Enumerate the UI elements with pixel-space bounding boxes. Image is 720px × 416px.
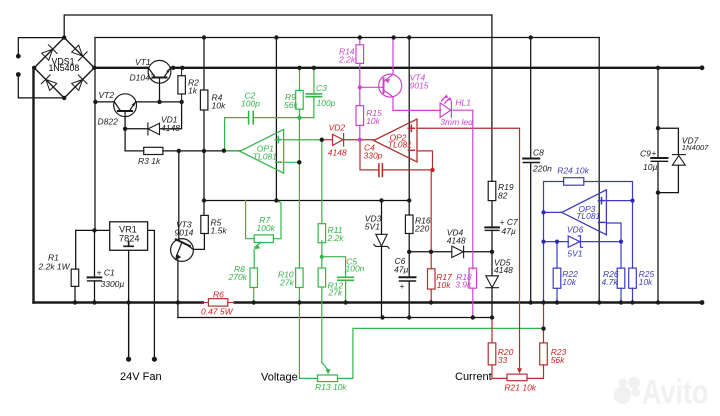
junction (34.2,67.8) <box>32 66 36 70</box>
junction (204,37.5) <box>202 35 206 39</box>
wire OP1 supply spine x=276.4 <box>275 38 277 201</box>
resistor R26 <box>620 242 622 269</box>
wire VR1 output to fan <box>148 230 155 359</box>
green junction dot R9/C2 node <box>297 116 301 120</box>
resistor R9 <box>299 68 301 118</box>
resistor R20 <box>488 343 496 365</box>
junction (409.2,37.5) <box>407 35 411 39</box>
svg-text:VT2: VT2 <box>99 90 115 100</box>
wire OP2 - input <box>417 151 433 170</box>
resistor R12 <box>318 268 326 287</box>
junction (173.2,67.8) <box>171 66 175 70</box>
junction (431,251.8) <box>429 250 433 254</box>
wire OP3 + input <box>606 200 632 202</box>
svg-text:1k: 1k <box>188 86 198 96</box>
wire VT1 base <box>159 83 161 102</box>
green junction dot R11/R12/C5 <box>320 255 324 259</box>
wire second rail y=37.5 <box>95 38 599 68</box>
wire OP1 - input <box>284 161 300 163</box>
junction (658,128.2) <box>656 126 660 130</box>
capacitor C9 <box>651 158 667 161</box>
svg-text:Current: Current <box>455 371 492 383</box>
junction (75,302.5) <box>73 300 77 304</box>
red labels <box>201 123 567 393</box>
svg-text:Avito: Avito <box>642 374 709 412</box>
svg-text:4148: 4148 <box>328 148 347 158</box>
trimmer R7 <box>246 201 255 239</box>
resistor R23 <box>540 343 548 365</box>
svg-text:+ C1: + C1 <box>97 268 115 278</box>
wire VD4 line y=251.8 <box>409 251 452 253</box>
svg-text:0.47 5W: 0.47 5W <box>201 307 234 317</box>
resistor R11 <box>321 140 323 223</box>
wire VR1 input y=230.4 <box>76 229 110 231</box>
wire VT3 base <box>178 151 180 240</box>
diode VD5 <box>486 276 499 288</box>
svg-text:100p: 100p <box>317 98 336 108</box>
wire OP1 + input <box>284 139 322 141</box>
svg-text:2.2k: 2.2k <box>338 55 356 65</box>
svg-text:10k: 10k <box>212 101 226 111</box>
junction (64.2,37.6) <box>62 35 66 39</box>
diode VD1 <box>148 123 160 135</box>
wire C2 corner to OP1 output <box>224 118 226 151</box>
svg-text:220n: 220n <box>532 164 552 174</box>
junction (599.2,302.5) <box>597 300 601 304</box>
svg-text:82: 82 <box>498 191 508 201</box>
zener VD6 <box>544 241 569 243</box>
junction (557,302.5) <box>555 300 559 304</box>
zener VD3 <box>374 234 389 248</box>
junction (204,150.9) <box>202 149 206 153</box>
transistor VT4 <box>379 74 402 97</box>
svg-text:3300µ: 3300µ <box>101 279 125 289</box>
junction (94.3,67.8) <box>92 66 96 70</box>
voltage regulator VR1 <box>110 222 148 251</box>
wire top rail y=15 <box>64 15 492 38</box>
svg-text:56k: 56k <box>551 355 565 365</box>
red junction dot C4 node <box>430 168 434 172</box>
svg-text:100n: 100n <box>346 264 365 274</box>
svg-text:100k: 100k <box>256 223 275 233</box>
svg-text:2.2k: 2.2k <box>327 233 345 243</box>
wire fan terminal left <box>128 302 130 359</box>
svg-text:47µ: 47µ <box>394 265 408 275</box>
junction (409.2,200.5) <box>407 198 411 202</box>
svg-text:R3 1k: R3 1k <box>138 156 161 166</box>
svg-text:10k: 10k <box>639 277 653 287</box>
junction (530.7,302.5) <box>529 300 533 304</box>
capacitor C3 <box>306 94 321 97</box>
junction (345.6,302.5) <box>343 300 347 304</box>
svg-text:R13 10k: R13 10k <box>315 382 347 392</box>
wire bridge+ spine x=95 down <box>94 68 96 231</box>
junction (658,192.6) <box>656 190 660 194</box>
junction (658,302.5) <box>656 300 660 304</box>
wire VD3 spine x=381.5 <box>381 201 383 235</box>
wire pot R21 right to R23 <box>527 365 544 379</box>
junction (223.9,150.7) <box>222 149 226 153</box>
wire C9/VD7 spine x=658 <box>657 68 659 158</box>
junction (359.8,37.5) <box>358 35 362 39</box>
svg-text:VT1: VT1 <box>135 57 151 67</box>
capacitor C6 <box>400 277 416 281</box>
resistor R2 <box>178 68 199 102</box>
junction (409.2,317.5) <box>407 315 411 319</box>
capacitor C5 <box>322 257 346 278</box>
svg-text:R6: R6 <box>213 290 224 300</box>
svg-text:220: 220 <box>414 224 429 234</box>
junction (64.2,98) <box>62 96 66 100</box>
wire R16 spine x=409 <box>408 38 410 216</box>
resistor R25 <box>632 201 634 269</box>
resistor R10 <box>296 268 304 288</box>
LED HL1 <box>440 103 451 118</box>
wire thick positive rail y=67.8 <box>95 67 148 69</box>
svg-text:24V Fan: 24V Fan <box>120 371 162 383</box>
wire thick left drop <box>32 68 34 303</box>
capacitor C8 <box>523 159 539 163</box>
svg-text:2.2k 1W: 2.2k 1W <box>38 262 71 272</box>
op-amp OP2 <box>374 119 417 162</box>
junction (299.4,302.5) <box>297 300 301 304</box>
wire left AC terminal upper <box>18 38 64 57</box>
svg-text:47µ: 47µ <box>502 226 516 236</box>
junction (204,200.5) <box>202 198 206 202</box>
svg-text:56k: 56k <box>284 100 298 110</box>
magenta junction dots <box>358 85 362 89</box>
svg-text:R21 10k: R21 10k <box>504 383 536 393</box>
svg-text:5V1: 5V1 <box>365 222 380 232</box>
svg-text:1N4007: 1N4007 <box>682 143 709 152</box>
wire pot R13 left <box>299 303 317 379</box>
wire C1 leads <box>94 230 96 277</box>
svg-text:Voltage: Voltage <box>261 372 298 384</box>
junction (492,317.5) <box>490 315 494 319</box>
wire VT2 collector <box>95 101 113 103</box>
wire OP2 + input to R21 wiper <box>417 128 520 367</box>
junction (472.8,317.5) <box>471 315 475 319</box>
svg-text:27k: 27k <box>279 278 294 288</box>
svg-text:10k: 10k <box>437 280 451 290</box>
svg-text:33: 33 <box>498 355 508 365</box>
svg-text:+: + <box>652 148 657 158</box>
junction (321.8,139.75) <box>320 138 324 142</box>
blue labels <box>557 166 654 288</box>
junction (658,67.8) <box>656 66 660 70</box>
wire VT2 base <box>124 117 126 151</box>
magenta labels <box>338 47 473 290</box>
resistor R4 <box>200 90 226 111</box>
svg-text:27k: 27k <box>328 288 343 298</box>
junction (299.3,162.3) <box>297 160 301 164</box>
junction (95.4,101.9) <box>93 100 97 104</box>
wire R19/C7/VD5 spine x=492 <box>491 15 493 181</box>
terminal dots 24V fan <box>126 357 157 362</box>
wire R9 node down to OP1 inverting input and R10 <box>298 118 300 268</box>
junction (382.5,317.5) <box>380 315 384 319</box>
bridge diode bottom-left <box>41 75 57 91</box>
svg-text:HL1: HL1 <box>455 98 471 108</box>
junction (18.3,56.2) <box>16 54 21 59</box>
svg-text:10k: 10k <box>562 277 576 287</box>
svg-text:4.7k: 4.7k <box>602 277 619 287</box>
junction (299.5,67.8) <box>297 66 301 70</box>
junction (621,302.5) <box>619 300 623 304</box>
junction (702,67.8) <box>700 65 705 70</box>
svg-text:R24 10k: R24 10k <box>557 166 589 176</box>
junction (543.5,302.5) <box>541 300 545 304</box>
green labels <box>228 83 365 392</box>
junction (18.3,74.5) <box>16 72 21 77</box>
svg-text:4148: 4148 <box>447 236 466 246</box>
wire R1 lead <box>75 230 77 269</box>
svg-text:C8: C8 <box>533 148 544 158</box>
svg-text:VD6: VD6 <box>567 225 584 235</box>
svg-text:D1047: D1047 <box>130 73 155 83</box>
resistor R24 <box>564 178 584 186</box>
svg-text:4148: 4148 <box>494 265 513 275</box>
wire output/feedback spine x=544 <box>544 182 564 303</box>
wire thick ground bus y=302.5 <box>34 301 203 303</box>
junction (393.6,37.5) <box>391 35 395 39</box>
junction (492,251.8) <box>490 250 494 254</box>
capacitor C2 <box>249 111 254 123</box>
svg-text:10µ: 10µ <box>643 162 657 172</box>
wire C2 feedback line y=117.6 <box>225 117 314 119</box>
diode VD2 <box>322 139 333 141</box>
wire detour sense line y=317.5 <box>178 317 492 319</box>
diode VD4 <box>452 246 464 258</box>
junction (431,302.5) <box>429 300 433 304</box>
junction (128.6,302.5) <box>126 300 130 304</box>
junction (253.7,302.5) <box>252 300 256 304</box>
junction (177.9,302.5) <box>176 300 180 304</box>
wire emitter line y=101.9 <box>136 101 181 103</box>
junction (543.5,328.6) <box>541 326 545 330</box>
svg-text:100p: 100p <box>241 99 260 109</box>
resistor R17 <box>428 269 436 289</box>
wire OP3 - input <box>606 223 621 242</box>
capacitor C4 feedback <box>360 140 379 170</box>
junction (94.5,230.4) <box>92 228 96 232</box>
junction (381.5,200.5) <box>379 198 383 202</box>
junction (182.4,67.8) <box>180 66 184 70</box>
wire C8 spine x=530.7 <box>530 38 532 159</box>
svg-text:VD2: VD2 <box>329 123 346 133</box>
wire OP1 output <box>224 150 240 152</box>
op-amp OP1 <box>240 129 284 173</box>
svg-text:7824: 7824 <box>119 234 139 244</box>
wire pot R13 right to current-limit node <box>338 328 544 378</box>
svg-text:9014: 9014 <box>175 228 194 238</box>
svg-text:270k: 270k <box>228 272 248 282</box>
resistor R14 <box>359 38 361 45</box>
resistor R8 <box>250 268 258 288</box>
wire left AC terminal lower <box>18 75 64 98</box>
junction (702,302.5) <box>700 300 705 305</box>
transistor VT2 <box>114 94 137 117</box>
junction (313.9,67.8) <box>312 66 316 70</box>
wire R4/R5 spine x=204 <box>203 38 205 91</box>
svg-text:C3: C3 <box>316 83 327 93</box>
junction (632.5,302.5) <box>630 300 634 304</box>
wire R3 line y=150.9 <box>125 150 144 152</box>
transistor VT3 <box>171 239 205 262</box>
wire VD7 branch <box>658 128 678 154</box>
potentiometer R13 <box>318 375 338 382</box>
wire OP3 supply spine x=599 <box>598 38 600 303</box>
transistor VT1 <box>148 60 171 83</box>
junction (94.5,302.5) <box>92 300 96 304</box>
resistor R3 <box>138 147 163 166</box>
svg-text:330p: 330p <box>364 151 383 161</box>
resistor R19 <box>488 181 514 200</box>
wire mid rail y=200.5 <box>204 200 409 202</box>
svg-text:TL081: TL081 <box>576 211 600 221</box>
svg-text:TL081: TL081 <box>388 139 412 149</box>
junction (276.4,37.5) <box>274 35 278 39</box>
svg-text:9015: 9015 <box>410 81 429 91</box>
junction (178.8,150.9) <box>177 149 181 153</box>
bridge diode bottom-right <box>71 75 87 91</box>
svg-text:4148: 4148 <box>161 123 180 133</box>
resistor R15 <box>359 87 361 105</box>
resistor R1 <box>38 253 79 287</box>
resistor R18 <box>469 268 477 288</box>
svg-text:TL081: TL081 <box>253 151 277 161</box>
junction (159.5,101.9) <box>157 100 161 104</box>
svg-text:1N5408: 1N5408 <box>49 63 80 73</box>
junction (530.7,37.5) <box>529 35 533 39</box>
diode VD7 <box>672 155 685 166</box>
junction (409.2,251.8) <box>407 250 411 254</box>
potentiometer R21 <box>507 374 527 381</box>
bridge diode top-left <box>41 45 57 61</box>
resistor R5 <box>201 215 228 235</box>
svg-text:10k: 10k <box>366 116 380 126</box>
junction (181.6,101.9) <box>179 100 183 104</box>
wire R12 wiper line down to pot R13 <box>321 287 323 363</box>
op-amp OP3 <box>562 190 607 235</box>
wire OP3 output <box>544 211 562 213</box>
svg-text:C9: C9 <box>640 149 651 159</box>
bridge diode top-right <box>71 44 87 60</box>
resistor R22 <box>556 242 558 269</box>
wire VT3 emitter to bus and detour <box>177 260 179 318</box>
wire C4 node down to R17 <box>430 170 432 252</box>
svg-text:5V1: 5V1 <box>567 249 582 259</box>
svg-text:3.9k: 3.9k <box>455 280 472 290</box>
junction (276.4,200.5) <box>274 198 278 202</box>
blue junction dots <box>541 199 634 244</box>
svg-text:+: + <box>400 281 405 291</box>
capacitor C1 <box>88 277 102 281</box>
wire VD1 line y=128.8 <box>125 128 148 130</box>
resistor R16 <box>405 215 430 234</box>
svg-text:D822: D822 <box>98 117 119 127</box>
svg-text:1.5k: 1.5k <box>211 226 228 236</box>
resistor R6 <box>203 299 235 306</box>
svg-text:3mm led: 3mm led <box>440 117 473 127</box>
capacitor C7 <box>485 227 499 230</box>
wire VR1 gnd pin + fan wire <box>128 250 130 359</box>
junction (125.1,128.8) <box>123 127 127 131</box>
